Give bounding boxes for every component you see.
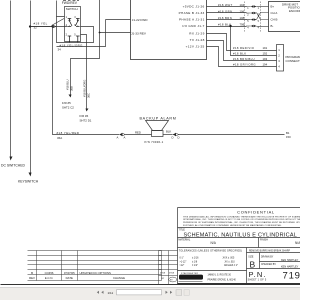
svg-text:108: 108 [240,16,245,20]
svg-text:PHASE A J1-31: PHASE A J1-31 [179,18,205,22]
svg-text:FURTHER, ALL INFORMATION CONTA: FURTHER, ALL INFORMATION CONTAINED HEREI… [183,224,282,227]
svg-text:TX J1-28: TX J1-28 [190,38,205,42]
switch FWD/REV S1 [62,1,81,43]
node F/R #5 SHT2 C2 [62,101,74,110]
svg-text:194: 194 [263,63,268,67]
svg-text:CONNECTOR: CONNECTOR [286,59,301,63]
drawn by cell [261,255,299,268]
arrow F/R #5 [69,95,72,98]
svg-text:A: A [117,136,119,140]
svg-text:KEN HARTLEY: KEN HARTLEY [281,266,299,269]
svg-text:#18 BRN: #18 BRN [218,16,232,20]
svg-text:+5VDC J1-26: +5VDC J1-26 [183,5,205,9]
size cell [248,257,255,270]
svg-text:.XX ± .010: .XX ± .010 [224,261,235,263]
svg-text:REMOVE BURRS AND BREAK SHARP: REMOVE BURRS AND BREAK SHARP [249,250,290,253]
svg-text:D: D [172,136,174,140]
svg-text:MATERIAL: MATERIAL [178,238,190,241]
svg-text:E.C.N.: E.C.N. [45,276,53,280]
connector pair on YEL wire [50,25,56,28]
svg-text:PHASE B J1-33: PHASE B J1-33 [179,11,205,15]
svg-text:719: 719 [283,270,301,281]
crossover wires [257,7,269,27]
svg-text:79B: 79B [240,22,245,26]
svg-text:SWITCH: SWITCH [66,7,78,11]
svg-text:36B: 36B [70,86,74,91]
wire TX to programming pin 3 [207,41,277,62]
svg-text:07/07/05: 07/07/05 [64,271,75,275]
svg-text:RX J1-29: RX J1-29 [189,31,204,35]
svg-text:F/R #5: F/R #5 [62,101,71,105]
svg-text:#18 RED/VIO: #18 RED/VIO [233,46,255,50]
wire KEYSWITCH vertical [30,1,32,173]
svg-text:± 1/8: ± 1/8 [192,261,198,263]
svg-text:UPDATED DC OPTIONS: UPDATED DC OPTIONS [80,271,111,275]
pin pair row2 [246,12,256,14]
wire +12V to programming pin 4 [207,47,277,67]
svg-text:SHT2 C2: SHT2 C2 [62,106,74,110]
pin numbers [247,7,259,30]
backup alarm LS1 [140,116,177,144]
svg-text:ANGLES ± 1°: ANGLES ± 1° [224,264,238,267]
svg-text:RED: RED [135,130,141,134]
svg-text:34: 34 [58,48,62,52]
svg-text:N/A: N/A [295,241,300,245]
wire #18 YEL 32 [31,22,51,30]
connector J2 encoder (dashed) [245,2,269,33]
wire #18 BLK 79B [207,22,247,26]
svg-text:DRAWN BY: DRAWN BY [261,255,274,258]
svg-text:SHT2 D1: SHT2 D1 [80,119,92,123]
wire #18 WHT 104 [207,3,247,7]
svg-text:A: A [124,136,126,140]
svg-text:TITLE: TITLE [178,229,185,232]
svg-text:#18 BLU/ORG: #18 BLU/ORG [83,80,87,97]
approval date strip [159,251,178,285]
svg-text:ENCODE: ENCODE [289,9,300,13]
svg-text:#18 BLU: #18 BLU [66,79,70,90]
drive motor position encoder B1 [269,2,303,32]
svg-text:DATE: DATE [66,276,73,280]
svg-text:#18 GRN: #18 GRN [218,9,232,13]
wire #18 GRN 106 [207,9,247,13]
wire J1-33 REV from top [100,0,131,33]
svg-text:SIZE: SIZE [248,257,254,259]
svg-text:CH B: CH B [271,18,278,22]
wire I/O GND to programming pin 2 [231,27,277,56]
svg-text:KEN HARTLEY: KEN HARTLEY [281,259,299,262]
svg-text:150: 150 [286,135,291,139]
svg-text:#18 BRN/BLU: #18 BRN/BLU [233,57,255,61]
viewer toolbar [0,288,300,300]
svg-text:104: 104 [240,3,245,7]
svg-text:BLK: BLK [166,130,171,134]
wire switch lower-right to F/R #6 [81,35,87,111]
svg-text:1/11: 1/11 [108,291,114,295]
connector A-A backup alarm [117,133,126,140]
pin pair row1 [246,5,256,7]
svg-text:CHECKED BY: CHECKED BY [261,264,276,266]
svg-text:.XXX ± .005: .XXX ± .005 [222,258,235,260]
svg-text:J1-22 FWD: J1-22 FWD [132,18,148,22]
pin pair row3 [246,18,256,20]
svg-text:B-: B- [271,24,274,28]
wire J1-22 FWD [57,20,131,47]
svg-text:N/A: N/A [211,241,217,245]
tolerances block [179,249,242,267]
wire diagonal to switch pin 1 [52,19,65,26]
arrow F/R #6 [86,109,89,112]
connector D-D backup alarm [172,133,180,140]
junction node #18 YEL [29,25,31,27]
svg-text:193: 193 [263,57,268,61]
wire #18 YEL/ORG 34 [57,17,94,52]
title block outline [178,208,301,285]
svg-text:P.N.: P.N. [249,270,267,279]
logo block [179,272,237,282]
switch pole left: pins [68,19,72,43]
wire YEL into switch middle pin [31,26,68,28]
svg-text:F/R #6: F/R #6 [80,114,89,118]
svg-text:191: 191 [263,46,268,50]
motor control board U1 [131,0,207,60]
arrow DC SWITCHED [1,157,25,168]
arrow KEYSWITCH [18,173,39,184]
wire BLK from alarm [163,130,173,135]
wire RX to programming pin 1 [207,34,277,51]
svg-text:14860 U.S. ROUTE 30: 14860 U.S. ROUTE 30 [208,275,232,277]
svg-text:CHANGE: CHANGE [113,276,125,280]
svg-text:REV: REV [29,276,35,280]
svg-text:106: 106 [240,9,245,13]
sheet bottom border [1,284,301,286]
pin numbers [66,16,77,37]
svg-text:BACKUP ALARM: BACKUP ALARM [140,116,177,120]
wire RED to alarm [125,130,151,134]
svg-text:36C: 36C [87,93,91,98]
svg-text:#18 GRY/ORG: #18 GRY/ORG [233,63,256,67]
svg-text:PRAIRIE GROVE, IL 60140: PRAIRIE GROVE, IL 60140 [208,278,237,281]
svg-text:CO456: CO456 [45,271,54,275]
svg-text:SHEET 1 OF 5: SHEET 1 OF 5 [248,279,267,282]
confidential block [183,209,315,226]
svg-text:#18 YEL/ORG: #18 YEL/ORG [60,43,84,47]
svg-text:FWD/REV: FWD/REV [62,1,78,5]
svg-text:CONFIDENTIAL: CONFIDENTIAL [237,209,275,214]
svg-text:B+: B+ [271,5,275,9]
svg-text:PERMISSION OF WHITEMAN INTERNA: PERMISSION OF WHITEMAN INTERNATIONAL, IN… [183,221,300,224]
node F/R #6 SHT2 D1 [80,114,92,123]
svg-text:THIS DRAWING AND ALL INFORMATI: THIS DRAWING AND ALL INFORMATION CONTAIN… [183,215,300,218]
programming connector J3 [277,45,306,72]
part number cell [248,270,301,282]
svg-text:D: D [178,136,180,140]
revision table [28,251,162,281]
pin pair row4 [246,25,256,27]
label wire #18 BLU/ORG (vertical) [83,80,91,98]
svg-text:± 1/2": ± 1/2" [192,265,198,267]
svg-text:TOLERANCES (UNLESS OTHERWISE S: TOLERANCES (UNLESS OTHERWISE SPECIFIED) [179,249,242,252]
svg-text:0-1": 0-1" [180,258,184,260]
title text [178,229,297,239]
svg-text:J1-33 REV: J1-33 REV [131,31,147,35]
svg-text:KEYSWITCH: KEYSWITCH [18,180,39,184]
svg-text:STAIRMASTER: STAIRMASTER [181,272,199,275]
svg-text:DC SWITCHED: DC SWITCHED [1,164,25,168]
wire REV branch down to F/R #5 [71,33,100,97]
wire #18 BRN 108 [207,16,247,20]
svg-text:B: B [31,271,33,275]
wire top feed to switch pin 1 [57,1,65,17]
wire DC SWITCHED vertical [10,1,12,157]
label wire #18 BLU (vertical) [66,79,74,91]
svg-text:± 1/16: ± 1/16 [192,258,199,260]
svg-text:36A: 36A [57,136,62,140]
wire #18 YEL/RED 36A to backup alarm [53,27,120,140]
switch pole right: pins [75,19,79,43]
svg-text:#18 YEL/RED: #18 YEL/RED [57,131,80,135]
svg-text:B: B [250,260,256,270]
svg-text:>12": >12" [180,264,185,267]
svg-text:>1-12": >1-12" [180,260,187,263]
svg-text:I/O GND J1-7: I/O GND J1-7 [182,24,204,28]
svg-text:FINISH: FINISH [260,238,268,241]
svg-text:SCHEMATIC, NAUTILUS E CYLINDRI: SCHEMATIC, NAUTILUS E CYLINDRICAL [184,233,298,239]
junction on BLK wire [229,25,231,27]
svg-text:INTERNATIONAL, INC. THIS DRAWI: INTERNATIONAL, INC. THIS DRAWING IS NOT … [183,218,300,221]
wire alarm return to edge [179,131,291,139]
svg-text:CH A: CH A [271,11,278,15]
svg-text:P/N 70936-1: P/N 70936-1 [145,140,164,144]
svg-text:07/08: 07/08 [169,273,175,275]
junction on REV wire [99,32,101,34]
svg-text:07/08: 07/08 [160,273,166,275]
svg-text:192: 192 [263,52,268,56]
svg-text:#18 BLK: #18 BLK [233,52,247,56]
svg-text:#18 WHT: #18 WHT [218,3,233,7]
material / finish [178,238,301,245]
svg-text:+12V J1-25: +12V J1-25 [186,44,205,48]
